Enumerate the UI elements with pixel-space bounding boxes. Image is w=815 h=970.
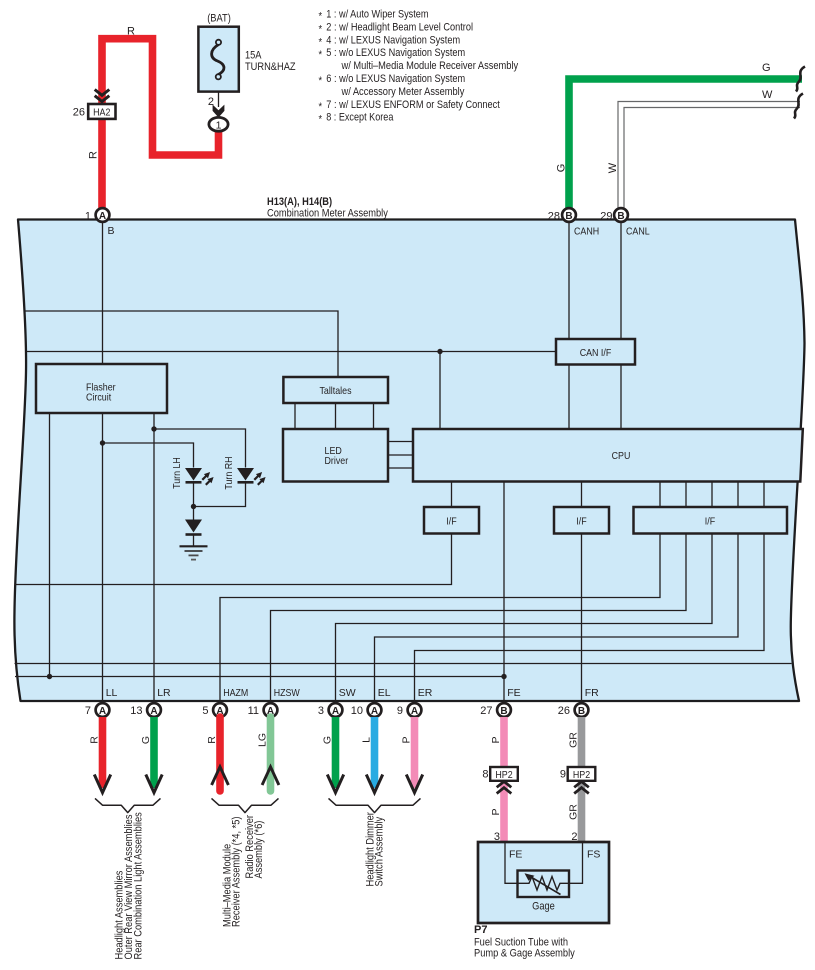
wire GR FR to fuel gage: [568, 717, 582, 842]
pin 11 A: [248, 703, 278, 717]
wire B from pin 1 to flasher circuit: [103, 222, 115, 364]
svg-text:9: 9: [397, 705, 403, 717]
wire I/F3 to pin HAZM: [220, 534, 660, 702]
net CANH inside box: [569, 222, 599, 339]
svg-text:A: A: [99, 211, 106, 222]
wire W CANL: [607, 89, 803, 211]
svg-text:R: R: [88, 151, 100, 159]
wire LG HZSW input: [257, 717, 279, 791]
svg-text:Circuit: Circuit: [86, 392, 111, 404]
wire I/F3 to pin SW: [336, 534, 713, 702]
pin 2 of P7: [571, 831, 577, 843]
svg-text:B: B: [500, 706, 507, 717]
label headlight assemblies destination: [114, 812, 145, 960]
wires LED driver to CPU: [388, 442, 413, 469]
diode to ground: [185, 520, 202, 547]
svg-text:FE: FE: [509, 849, 522, 861]
svg-text:27: 27: [480, 705, 492, 717]
wire I/F 1 output to left edge: [15, 534, 452, 585]
svg-text:G: G: [762, 62, 771, 74]
I/F block 1: [424, 507, 479, 534]
svg-text:B: B: [565, 211, 572, 222]
svg-text:Pump & Gage Assembly: Pump & Gage Assembly: [474, 948, 575, 960]
pin 1 A of H13: [85, 208, 110, 222]
svg-text:TURN&HAZ: TURN&HAZ: [245, 61, 296, 73]
svg-text:Turn RH: Turn RH: [223, 456, 235, 489]
svg-text:FR: FR: [585, 687, 599, 699]
svg-text:* 4 : w/ LEXUS Navigation Syst: * 4 : w/ LEXUS Navigation System: [319, 34, 461, 48]
svg-text:15A: 15A: [245, 50, 262, 62]
wire I/F3 to pin EL: [375, 534, 739, 702]
svg-text:G: G: [556, 164, 568, 173]
pin 29 B CANL: [600, 208, 628, 222]
svg-text:G: G: [322, 736, 334, 744]
svg-text:* 1 : w/ Auto Wiper System: * 1 : w/ Auto Wiper System: [319, 9, 429, 23]
net CANL inside box: [621, 222, 650, 339]
wire G CANH: [556, 62, 806, 211]
svg-text:B: B: [108, 225, 115, 237]
brace headlight dimmer group: [329, 798, 421, 812]
wire I/F 2 to pin FR: [581, 534, 583, 702]
svg-text:29: 29: [600, 211, 612, 223]
svg-text:R: R: [206, 736, 218, 744]
svg-text:H13(A), H14(B): H13(A), H14(B): [267, 196, 332, 208]
P7 fuel suction tube with pump & gage assembly: [478, 842, 609, 923]
svg-text:3: 3: [318, 705, 324, 717]
svg-text:I/F: I/F: [576, 515, 586, 527]
svg-text:SW: SW: [339, 687, 356, 699]
svg-text:CANH: CANH: [574, 226, 599, 238]
svg-text:LL: LL: [106, 687, 118, 699]
svg-text:G: G: [140, 736, 152, 744]
svg-text:GR: GR: [568, 732, 580, 748]
fuse outlet terminal 2 with arrow and node 1: [208, 92, 228, 132]
svg-text:Switch Assembly: Switch Assembly: [374, 816, 386, 886]
label combination meter assembly title: [267, 196, 388, 220]
pin 7 A: [85, 703, 110, 717]
svg-text:9: 9: [560, 769, 566, 781]
svg-text:(BAT): (BAT): [207, 13, 231, 25]
svg-text:P: P: [490, 736, 502, 743]
svg-text:HZSW: HZSW: [274, 687, 300, 699]
brace multi-media group: [212, 798, 279, 812]
svg-text:CANL: CANL: [626, 226, 650, 238]
svg-text:1: 1: [216, 119, 222, 131]
svg-text:LR: LR: [157, 687, 171, 699]
svg-text:HP2: HP2: [573, 769, 590, 781]
svg-text:26: 26: [73, 106, 85, 118]
variable resistor gage: [518, 871, 570, 913]
wire CPU to I/F 2: [581, 482, 583, 508]
pin 3 of P7: [494, 831, 500, 843]
svg-text:P7: P7: [474, 924, 487, 936]
svg-text:8: 8: [482, 769, 488, 781]
label P7 assembly name: [474, 924, 575, 960]
svg-text:L: L: [361, 737, 373, 743]
svg-text:* 7 : w/ LEXUS ENFORM or Safet: * 7 : w/ LEXUS ENFORM or Safety Connect: [319, 99, 500, 113]
svg-text:ER: ER: [418, 687, 433, 699]
svg-text:R: R: [127, 26, 135, 38]
svg-text:5: 5: [202, 705, 208, 717]
wire L EL output: [361, 717, 383, 793]
wire bus left edge to right edge: [15, 663, 792, 665]
wire flasher to turn RH LED: [151, 413, 245, 701]
svg-text:EL: EL: [378, 687, 391, 699]
pin 3 A: [318, 703, 343, 717]
wire CAN I/F feed from left edge with junction to CPU: [26, 349, 557, 429]
junction node LEDs to diode: [191, 504, 196, 520]
svg-text:A: A: [150, 706, 157, 717]
svg-text:Turn LH: Turn LH: [171, 457, 183, 489]
svg-text:28: 28: [548, 211, 560, 223]
pin 27 B: [480, 703, 511, 717]
svg-text:CPU: CPU: [612, 450, 631, 462]
svg-text:Gage: Gage: [532, 901, 555, 913]
wires CPU to I/F 3 bus: [660, 482, 764, 508]
telltales block: [283, 377, 388, 403]
brace headlight assemblies group: [95, 798, 161, 812]
svg-text:10: 10: [351, 705, 363, 717]
pin 26 B: [558, 703, 589, 717]
wire flasher to turn LH LED: [100, 413, 194, 701]
wire I/F3 to pin ER: [415, 534, 765, 702]
svg-text:Driver: Driver: [325, 455, 349, 467]
svg-text:W: W: [762, 89, 773, 101]
I/F block 3: [634, 507, 788, 534]
svg-text:LG: LG: [257, 733, 269, 747]
pin 10 A: [351, 703, 382, 717]
pin 28 B CANH: [548, 208, 576, 222]
wires CAN I/F to CPU: [569, 365, 621, 430]
svg-text:Talltales: Talltales: [319, 385, 351, 397]
svg-text:26: 26: [558, 705, 570, 717]
ground: [180, 546, 208, 559]
wires telltales to LED driver: [295, 403, 374, 429]
svg-text:1: 1: [85, 211, 91, 223]
flasher circuit block: [36, 364, 167, 413]
pin 9 A: [397, 703, 422, 717]
svg-text:w/ Accessory Meter Assembly: w/ Accessory Meter Assembly: [341, 86, 465, 98]
svg-text:* 6 : w/o LEXUS Navigation Sys: * 6 : w/o LEXUS Navigation System: [319, 73, 466, 87]
LED driver block: [283, 429, 388, 482]
svg-text:B: B: [578, 706, 585, 717]
connector HP2 pin 8: [482, 767, 517, 794]
wire R battery feed (fuse to HA2 to pin 1): [88, 26, 219, 213]
connector HA2 pin 26: [73, 90, 116, 119]
wire G LR output: [140, 717, 162, 793]
svg-text:* 8 : Except Korea: * 8 : Except Korea: [319, 112, 395, 126]
wire P FE to fuel gage: [490, 717, 504, 842]
CPU block: [413, 429, 803, 482]
CAN I/F U-block: [556, 339, 635, 365]
svg-text:FE: FE: [507, 687, 520, 699]
svg-text:HA2: HA2: [93, 107, 110, 119]
pin 13 A: [130, 703, 161, 717]
wire left edge to pin FE junction: [15, 674, 507, 679]
svg-text:A: A: [99, 706, 106, 717]
svg-text:13: 13: [130, 705, 142, 717]
label headlight dimmer switch destination: [365, 812, 386, 887]
I/F block 2: [554, 507, 609, 534]
label multi-media module receiver destination: [222, 817, 243, 928]
wire CPU to pin FE: [503, 482, 505, 702]
svg-text:B: B: [617, 211, 624, 222]
svg-text:GR: GR: [568, 804, 580, 820]
wire telltales feed from left edge: [25, 311, 338, 377]
svg-text:R: R: [89, 736, 101, 744]
wire I/F3 to pin HZSW: [271, 534, 687, 702]
wire flasher to FE bus: [49, 413, 51, 677]
svg-text:W: W: [607, 162, 619, 173]
svg-text:7: 7: [85, 705, 91, 717]
label radio receiver destination: [244, 815, 265, 879]
svg-text:CAN I/F: CAN I/F: [580, 347, 612, 359]
pin name labels above bottom edge: [106, 687, 599, 699]
svg-text:I/F: I/F: [446, 515, 456, 527]
svg-text:HAZM: HAZM: [223, 687, 248, 699]
wire R LL output: [89, 717, 111, 793]
fuse 15A TURN&HAZ (BAT): [198, 13, 295, 92]
svg-text:P: P: [401, 736, 413, 743]
wire R HAZM input: [206, 717, 228, 791]
svg-text:* 2 : w/ Headlight Beam Level: * 2 : w/ Headlight Beam Level Control: [319, 21, 474, 35]
pin 5 A: [202, 703, 227, 717]
svg-text:I/F: I/F: [705, 515, 715, 527]
legend notes: [319, 9, 519, 126]
svg-text:A: A: [411, 706, 418, 717]
combination meter assembly H13(A),H14(B) body: [14, 220, 804, 702]
svg-text:Combination Meter Assembly: Combination Meter Assembly: [267, 208, 388, 220]
LED turn RH: [194, 456, 266, 506]
svg-text:w/ Multi–Media Module Receiver: w/ Multi–Media Module Receiver Assembly: [341, 60, 519, 72]
svg-text:P: P: [490, 808, 502, 815]
wire CPU to I/F 1: [451, 482, 453, 508]
svg-text:FS: FS: [587, 849, 600, 861]
svg-text:HP2: HP2: [495, 769, 512, 781]
LED turn LH: [171, 457, 214, 506]
svg-text:Receiver Assembly (*4, *5): Receiver Assembly (*4, *5): [231, 817, 243, 928]
wire G SW output: [322, 717, 344, 793]
wire P ER output: [401, 717, 423, 793]
connector HP2 pin 9: [560, 767, 595, 794]
svg-text:A: A: [371, 706, 378, 717]
svg-text:11: 11: [248, 705, 259, 717]
svg-text:Rear Combination Light Assembl: Rear Combination Light Assemblies: [133, 812, 145, 960]
svg-text:Assembly (*6): Assembly (*6): [253, 821, 265, 879]
svg-text:* 5 : w/o LEXUS Navigation Sys: * 5 : w/o LEXUS Navigation System: [319, 47, 466, 61]
svg-text:A: A: [332, 706, 339, 717]
